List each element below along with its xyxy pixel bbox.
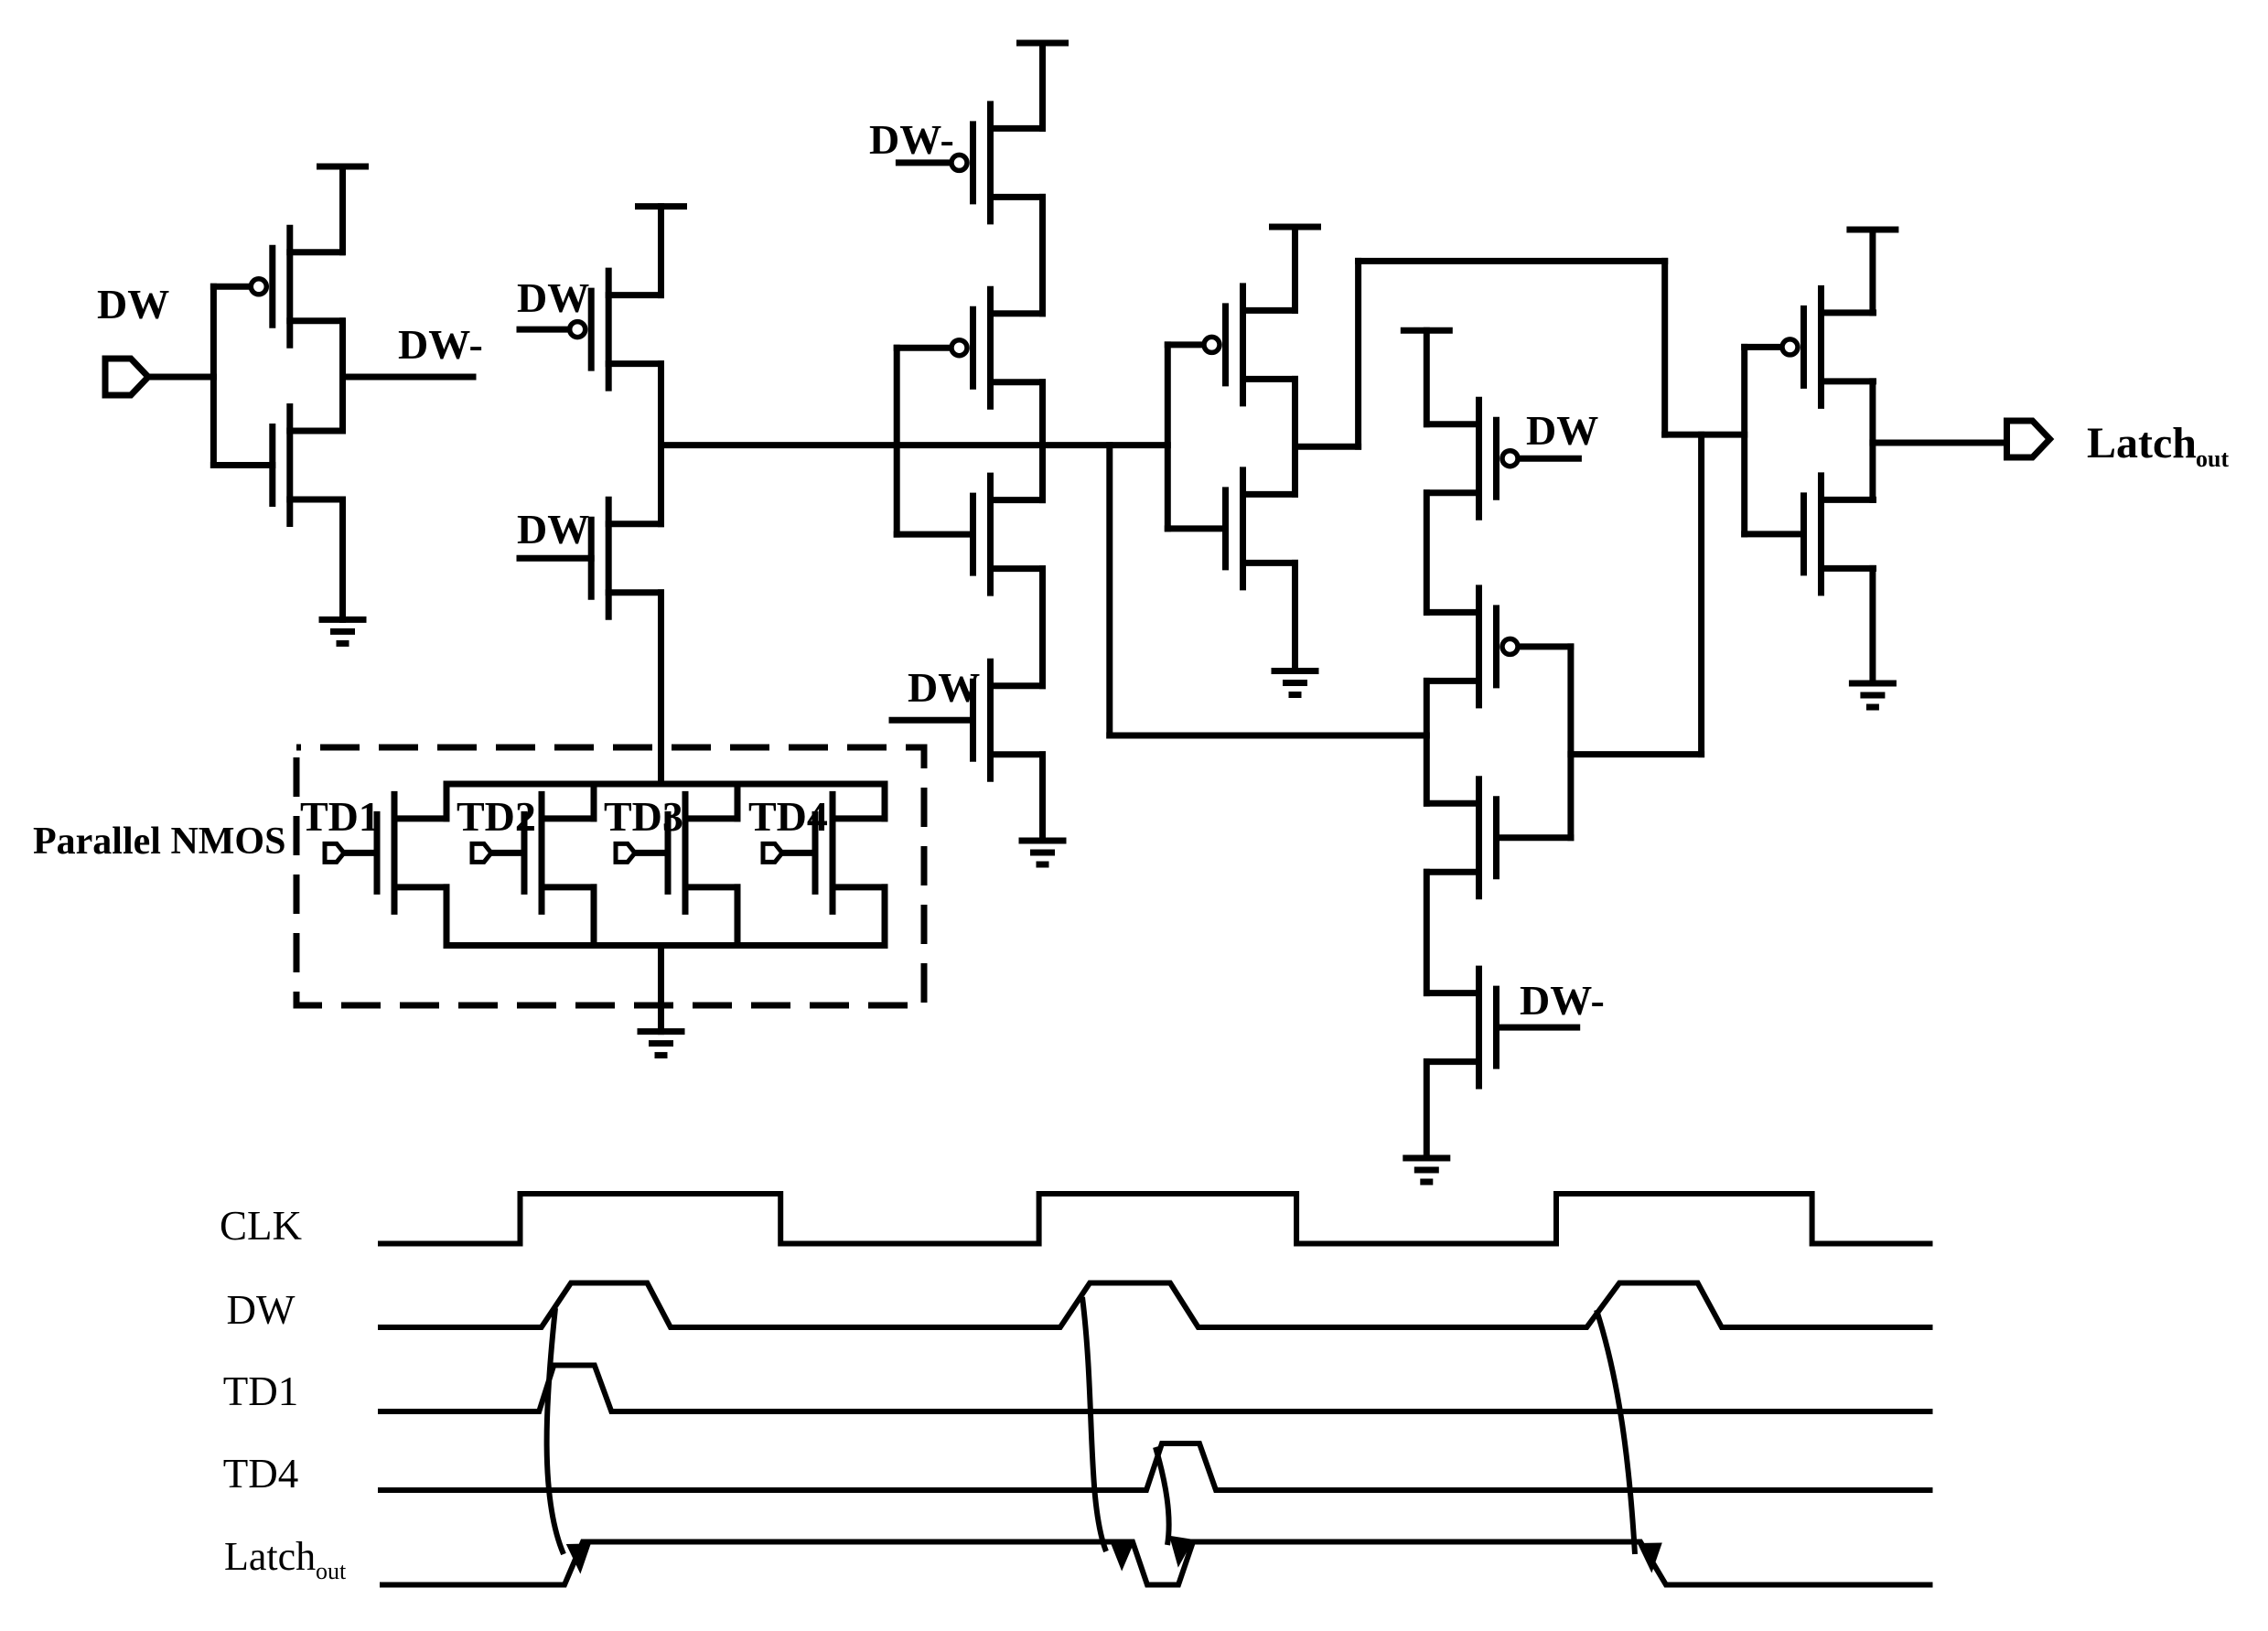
svg-text:CLK: CLK (220, 1203, 303, 1249)
transistor Q7 NMOS gate from node A (897, 476, 1042, 593)
transistor Q10 NMOS gate from node A (1167, 470, 1295, 587)
wire node A horizontal (661, 442, 1168, 448)
wire drain bus (446, 781, 885, 788)
svg-text:DW: DW (227, 1287, 296, 1333)
power VDD rail symbol (column 5) (1403, 327, 1449, 334)
wire feedback horizontal (top) (1359, 258, 1665, 264)
wire VDD to Q3 source (658, 207, 664, 295)
transistor Q9 PMOS gate from node A (1167, 286, 1295, 403)
transistor TD2 NMOS (524, 794, 594, 911)
svg-text:out: out (2196, 445, 2229, 472)
wire node B horizontal (1110, 733, 1427, 739)
wire Q3 drain down to node A (658, 364, 664, 524)
output port Latch_out (2007, 421, 2050, 457)
transistor Q15 PMOS (output inverter) (1745, 288, 1874, 405)
wire Q5 drain to Q6 source (1039, 197, 1046, 313)
wire TD1 gate lead (344, 850, 377, 856)
wire Q15/Q16 gate vertical (1741, 347, 1747, 534)
wire TD2 gate lead (491, 850, 524, 856)
wire feedback vertical (1355, 261, 1361, 446)
svg-text:TD3: TD3 (604, 793, 683, 840)
svg-text:DW-: DW- (1520, 977, 1605, 1024)
transistor TD3 NMOS (668, 794, 737, 911)
wire VDD to Q5 source (1039, 43, 1046, 128)
transistor Q13 NMOS gate from latch node (mirrored) (1427, 779, 1571, 896)
transistor Q3 PMOS gate DW (520, 271, 661, 388)
wire Q4 source to parallel NMOS drain bus (658, 593, 664, 784)
wire Q6 drain to Q7 drain (1039, 382, 1046, 500)
wire TD4 source to bus (882, 887, 888, 946)
input port TD4 (763, 843, 782, 862)
wire Q12 drain to Q13 drain (1424, 681, 1430, 803)
label Latch_out (2087, 419, 2229, 472)
wire VDD to Q11 source (1424, 330, 1430, 424)
ground (column 4) (1274, 671, 1316, 695)
wire Q14 source to ground (1424, 1062, 1430, 1158)
wire Q10 source to ground (1292, 563, 1298, 671)
wire VDD to Q15 source (1869, 230, 1876, 313)
wire VDD to Q1 source (339, 166, 346, 252)
power VDD rail symbol (column 2) (639, 203, 684, 209)
waveform Latch_out (380, 1542, 1933, 1585)
transistor Q14 NMOS gate DW- (mirrored) (1427, 969, 1577, 1086)
input port TD3 (616, 843, 635, 862)
arrow DW edge to Latch_out rise (cycle 1) (547, 1308, 602, 1574)
wire TD1 source to bus (444, 887, 450, 946)
power VDD rail symbol (output stage) (1850, 227, 1896, 233)
transistor Q6 PMOS gate from node A (897, 289, 1042, 406)
svg-text:TD1: TD1 (223, 1368, 299, 1414)
wire output node (1873, 440, 2002, 446)
waveform DW (378, 1283, 1933, 1328)
wire latch node vertical (1698, 435, 1704, 754)
wire TD3 source to bus (735, 887, 741, 946)
waveform TD4 (378, 1443, 1933, 1490)
wire Q11 drain to Q12 source (1424, 493, 1430, 613)
waveform TD1 (378, 1366, 1933, 1412)
svg-text:DW: DW (1526, 407, 1598, 454)
wire TD2 source to bus (591, 887, 597, 946)
svg-text:TD4: TD4 (748, 793, 828, 840)
ground (column 5) (1406, 1158, 1447, 1182)
power VDD rail symbol (inverter 1) (320, 164, 366, 170)
transistor Q1 PMOS (inverter 1 pull-up) (213, 228, 341, 345)
wire Q9 drain to Q10 drain (1292, 379, 1298, 494)
wire Q6 gate down to node A (894, 348, 900, 534)
wire Q16 source to ground (1869, 568, 1876, 683)
wire Q9/Q10 gate vertical (1165, 345, 1171, 529)
wire Q7 source to Q8 drain (1039, 569, 1046, 686)
dashed box Parallel NMOS (296, 747, 924, 1005)
transistor Q2 NMOS (inverter 1 pull-down) (213, 407, 341, 524)
svg-text:DW-: DW- (869, 116, 954, 163)
svg-text:Latch: Latch (2087, 419, 2197, 467)
svg-text:DW-: DW- (398, 321, 483, 368)
wire input port to gate node (148, 374, 213, 381)
svg-text:Parallel NMOS: Parallel NMOS (33, 821, 285, 863)
arrow DW edge to Latch_out dip (cycle 2) (1082, 1297, 1144, 1572)
wire feedback to output gates (1665, 432, 1745, 438)
transistor Q11 PMOS gate DW (mirrored) (1427, 400, 1579, 517)
transistor Q16 NMOS (output inverter) (1745, 476, 1874, 593)
input port DW (105, 359, 148, 395)
waveform CLK (378, 1194, 1933, 1244)
wire Q8 source to ground (1039, 755, 1046, 841)
wire Q1 drain to Q2 drain (node DW-) (339, 321, 346, 431)
ground (column 3) (1022, 841, 1063, 864)
input port TD2 (472, 843, 491, 862)
transistor Q8 NMOS gate DW (892, 661, 1043, 778)
wire feedback right vertical (1661, 261, 1668, 435)
wire TD4 gate lead (782, 850, 815, 856)
transistor TD1 NMOS (377, 794, 446, 911)
svg-text:TD2: TD2 (457, 793, 536, 840)
wire Q15 drain to Q16 drain (1869, 381, 1876, 500)
transistor TD4 NMOS (815, 794, 885, 911)
svg-text:out: out (316, 1558, 347, 1584)
wire latch node horizontal (1571, 751, 1702, 757)
wire gate vertical Q1/Q2 (210, 286, 217, 465)
svg-text:DW: DW (97, 281, 169, 327)
ground (parallel NMOS) (640, 1032, 682, 1056)
ground (output stage) (1852, 683, 1893, 707)
svg-text:TD4: TD4 (223, 1451, 299, 1497)
ground (inverter 1) (322, 619, 363, 643)
wire TD1 drain to bus (444, 784, 450, 819)
wire TD3 gate lead (635, 850, 668, 856)
wire VDD to Q9 source (1292, 227, 1298, 310)
svg-text:Latch: Latch (224, 1534, 316, 1579)
wire node DW- output (343, 374, 474, 381)
svg-text:TD1: TD1 (300, 793, 380, 840)
power VDD rail symbol (column 4) (1273, 224, 1318, 231)
wire TD3 drain to bus (735, 784, 741, 819)
wire Q13 source to Q14 drain (1424, 872, 1430, 993)
wire TD2 drain to bus (591, 784, 597, 819)
wire TD4 drain to bus (882, 784, 888, 819)
input port TD1 (325, 843, 344, 862)
wire source bus (446, 942, 885, 949)
svg-text:DW: DW (908, 664, 980, 711)
transistor Q4 NMOS gate DW (520, 499, 661, 617)
transistor Q12 PMOS gate from latch node (mirrored) (1427, 588, 1571, 705)
svg-text:DW: DW (517, 506, 589, 553)
label Latch_out (waveform) (224, 1534, 347, 1584)
arrow DW edge to Latch_out fall (cycle 3) (1596, 1310, 1672, 1573)
wire column4 output to feedback (1295, 444, 1359, 450)
power VDD rail symbol (column 3) (1020, 40, 1066, 47)
wire Q2 source to ground (339, 499, 346, 619)
wire source bus to ground (658, 946, 664, 1032)
transistor Q5 PMOS gate DW- (898, 104, 1042, 221)
arrow TD4 pulse to Latch_out recover (cycle 2) (1155, 1447, 1202, 1568)
wire node A to node B vertical (1106, 445, 1113, 735)
svg-text:DW: DW (517, 274, 589, 321)
wire Q12/Q13 gate vertical (1567, 647, 1574, 838)
